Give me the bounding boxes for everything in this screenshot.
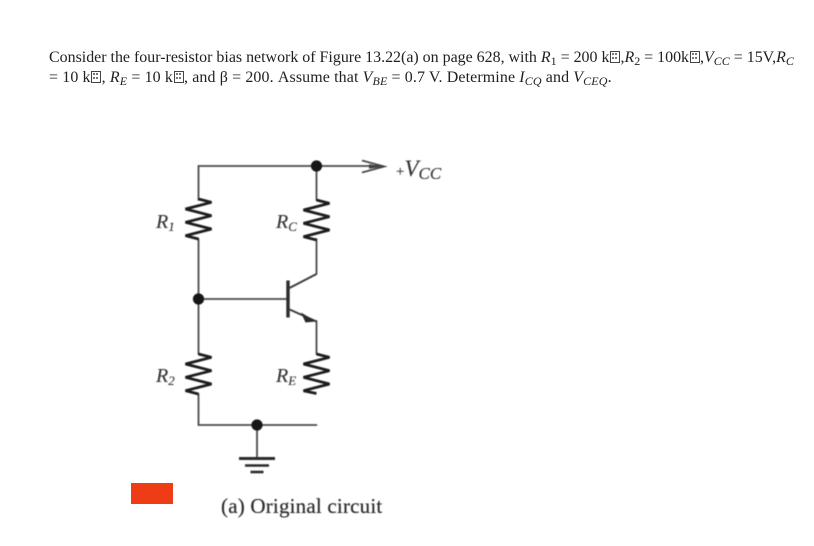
wire: collector vertical	[316, 239, 318, 274]
resistor RE	[304, 354, 330, 394]
resistor R1	[186, 199, 212, 239]
wire: emitter vertical	[316, 321, 318, 354]
wire: base wire	[199, 298, 288, 300]
ground	[239, 459, 275, 473]
node C: ground junction	[251, 419, 262, 430]
resistor RC	[304, 200, 330, 240]
caption	[221, 494, 382, 519]
vcc arrow	[362, 161, 385, 173]
wire: vcc feed	[317, 165, 379, 167]
label R1	[156, 211, 175, 234]
label RE	[276, 365, 296, 388]
wire: right branch upper	[316, 166, 318, 200]
wire: left branch lower	[198, 394, 200, 425]
transistor Q1	[288, 274, 317, 323]
label R2	[156, 365, 175, 388]
wire: left branch middle	[198, 239, 200, 354]
label RC	[276, 211, 297, 234]
wire: left branch upper	[198, 166, 200, 200]
red highlight rectangle	[131, 483, 173, 504]
node B: base junction	[193, 293, 204, 304]
wire: bottom rail	[199, 424, 317, 426]
resistor R2	[186, 354, 212, 394]
node A: vcc junction	[311, 160, 322, 171]
wire: ground stem	[256, 425, 258, 458]
problem statement text	[49, 48, 814, 88]
wire: top rail	[199, 165, 317, 167]
label +VCC	[396, 156, 441, 182]
